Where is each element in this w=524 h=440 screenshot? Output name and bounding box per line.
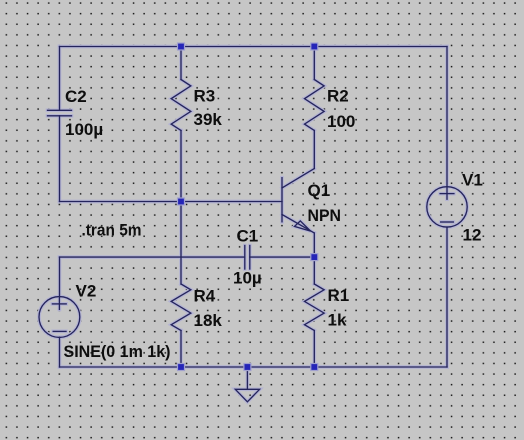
svg-text:R4: R4	[194, 287, 216, 306]
svg-text:10µ: 10µ	[233, 269, 262, 288]
node junction emitter	[311, 254, 318, 261]
wire halo	[39, 47, 467, 402]
svg-text:R3: R3	[194, 87, 216, 106]
node junction R4 bottom	[178, 364, 185, 371]
svg-text:18k: 18k	[194, 311, 223, 330]
svg-text:R1: R1	[328, 286, 350, 305]
svg-text:100µ: 100µ	[65, 120, 103, 139]
svg-text:V1: V1	[462, 171, 483, 190]
svg-text:100: 100	[327, 112, 355, 131]
svg-text:.tran 5m: .tran 5m	[82, 221, 142, 240]
svg-text:12: 12	[463, 226, 482, 245]
svg-text:C1: C1	[237, 227, 259, 246]
svg-text:1k: 1k	[328, 311, 347, 330]
node junction R1 bottom	[311, 364, 318, 371]
svg-text:SINE(0 1m 1k): SINE(0 1m 1k)	[64, 342, 171, 361]
node junction R2 top	[311, 43, 318, 50]
svg-text:C2: C2	[65, 87, 87, 106]
svg-text:R2: R2	[327, 87, 349, 106]
svg-text:39k: 39k	[194, 110, 223, 129]
node junction ground	[244, 364, 251, 371]
svg-text:NPN: NPN	[308, 206, 342, 225]
node junction R3 top	[178, 43, 185, 50]
svg-text:Q1: Q1	[308, 181, 331, 200]
circuit wires and symbols (main stroke)	[39, 47, 467, 402]
node junction base	[178, 198, 185, 205]
svg-text:V2: V2	[76, 282, 97, 301]
